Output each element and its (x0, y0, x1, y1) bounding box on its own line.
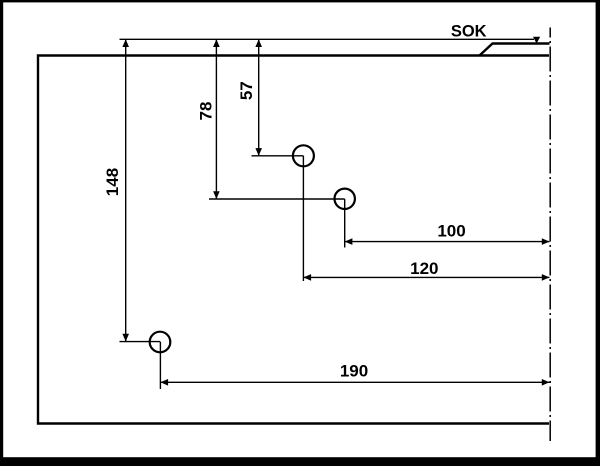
plate step chamfer (SOK ledge) (480, 44, 550, 56)
arrow 190 right (542, 379, 550, 386)
dimension line 100 (horizontal) (345, 241, 550, 243)
dimension line 120 (horizontal) (303, 276, 549, 278)
arrow 148 top (122, 39, 129, 47)
svg-text:57: 57 (237, 81, 256, 100)
svg-text:100: 100 (437, 222, 465, 241)
outer border top (0, 0, 600, 2)
outer border bottom (0, 457, 600, 466)
svg-text:120: 120 (410, 259, 438, 278)
hole 3 circle (150, 332, 171, 353)
arrow 190 left (160, 379, 168, 386)
hole 1 circle (293, 145, 314, 166)
dimension line 57 (vertical) (258, 39, 260, 156)
dimension line 78 (vertical) (215, 39, 217, 199)
svg-text:78: 78 (197, 102, 216, 121)
arrow 120 left (303, 274, 311, 281)
arrow 120 right (542, 274, 550, 281)
dimension line 190 (horizontal) (160, 381, 549, 383)
drop line from hole 3 (159, 342, 161, 389)
arrow 78 top (213, 39, 220, 47)
arrow 148 bottom (122, 334, 129, 342)
arrow 57 bottom (255, 148, 262, 156)
arrow 100 left (345, 238, 353, 245)
svg-text:148: 148 (103, 168, 122, 196)
outer border left (0, 0, 3, 466)
centerline (dash-dot) (549, 28, 551, 442)
arrow 57 top (255, 39, 262, 47)
outer border right (596, 0, 600, 466)
svg-text:SOK: SOK (451, 23, 487, 41)
hole 2 circle (335, 189, 355, 209)
drop line from hole 1 (302, 156, 304, 281)
arrow 100 right (542, 238, 550, 245)
leader line to hole 3 (y 341.6) (120, 341, 161, 343)
SOK datum arrowhead (533, 37, 540, 44)
plate outline (top, left, bottom edges) (38, 56, 549, 424)
svg-text:190: 190 (340, 362, 368, 381)
dimension line 148 (vertical) (125, 39, 127, 341)
SOK reference line (top dimension line) (120, 38, 535, 40)
drop line from hole 2 (344, 199, 346, 248)
leader line to hole 2 (y 199) (209, 198, 345, 200)
leader line to hole 1 (y 156) (252, 155, 304, 157)
arrow 78 bottom (213, 191, 220, 199)
